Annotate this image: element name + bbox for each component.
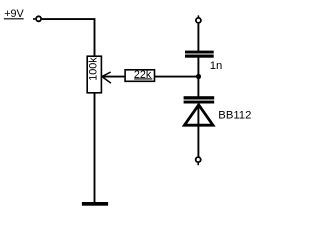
svg-text:1n: 1n (210, 60, 223, 72)
potentiometer wiper arrow barbs (102, 72, 111, 83)
wire potentiometer bottom to ground (94, 93, 96, 203)
wire resistor to junction (155, 76, 199, 78)
wire capacitor to junction to varactor (197, 58, 199, 97)
varactor D1 cathode bar upper (184, 96, 215, 99)
node +9V underline (4, 18, 24, 20)
capacitor C1 top plate (185, 51, 214, 54)
terminal pin stub above top terminal (197, 15, 199, 17)
wire wiper to resistor R1 (102, 76, 125, 78)
resistor value underline (134, 78, 152, 80)
wire varactor to bottom terminal (197, 104, 199, 157)
terminal pin stub below bottom terminal (197, 163, 199, 165)
varactor D1 anode triangle (184, 105, 213, 125)
terminal +9V (36, 16, 41, 21)
capacitor C1 bottom plate (185, 55, 214, 58)
potentiometer P1 body (87, 56, 101, 93)
wire top terminal to capacitor C1 (197, 24, 199, 51)
ground symbol (82, 202, 108, 206)
wire from +9V terminal right then down to potentiometer top (42, 19, 95, 56)
resistor R1 body (125, 70, 154, 82)
junction node dot (196, 74, 201, 79)
varactor D1 cathode bar lower (184, 101, 215, 104)
svg-text:BB112: BB112 (218, 109, 251, 121)
terminal pin stub left of +9V terminal (33, 18, 35, 20)
terminal bottom output (196, 157, 201, 162)
svg-text:100k: 100k (88, 57, 100, 81)
terminal top output (196, 18, 201, 23)
